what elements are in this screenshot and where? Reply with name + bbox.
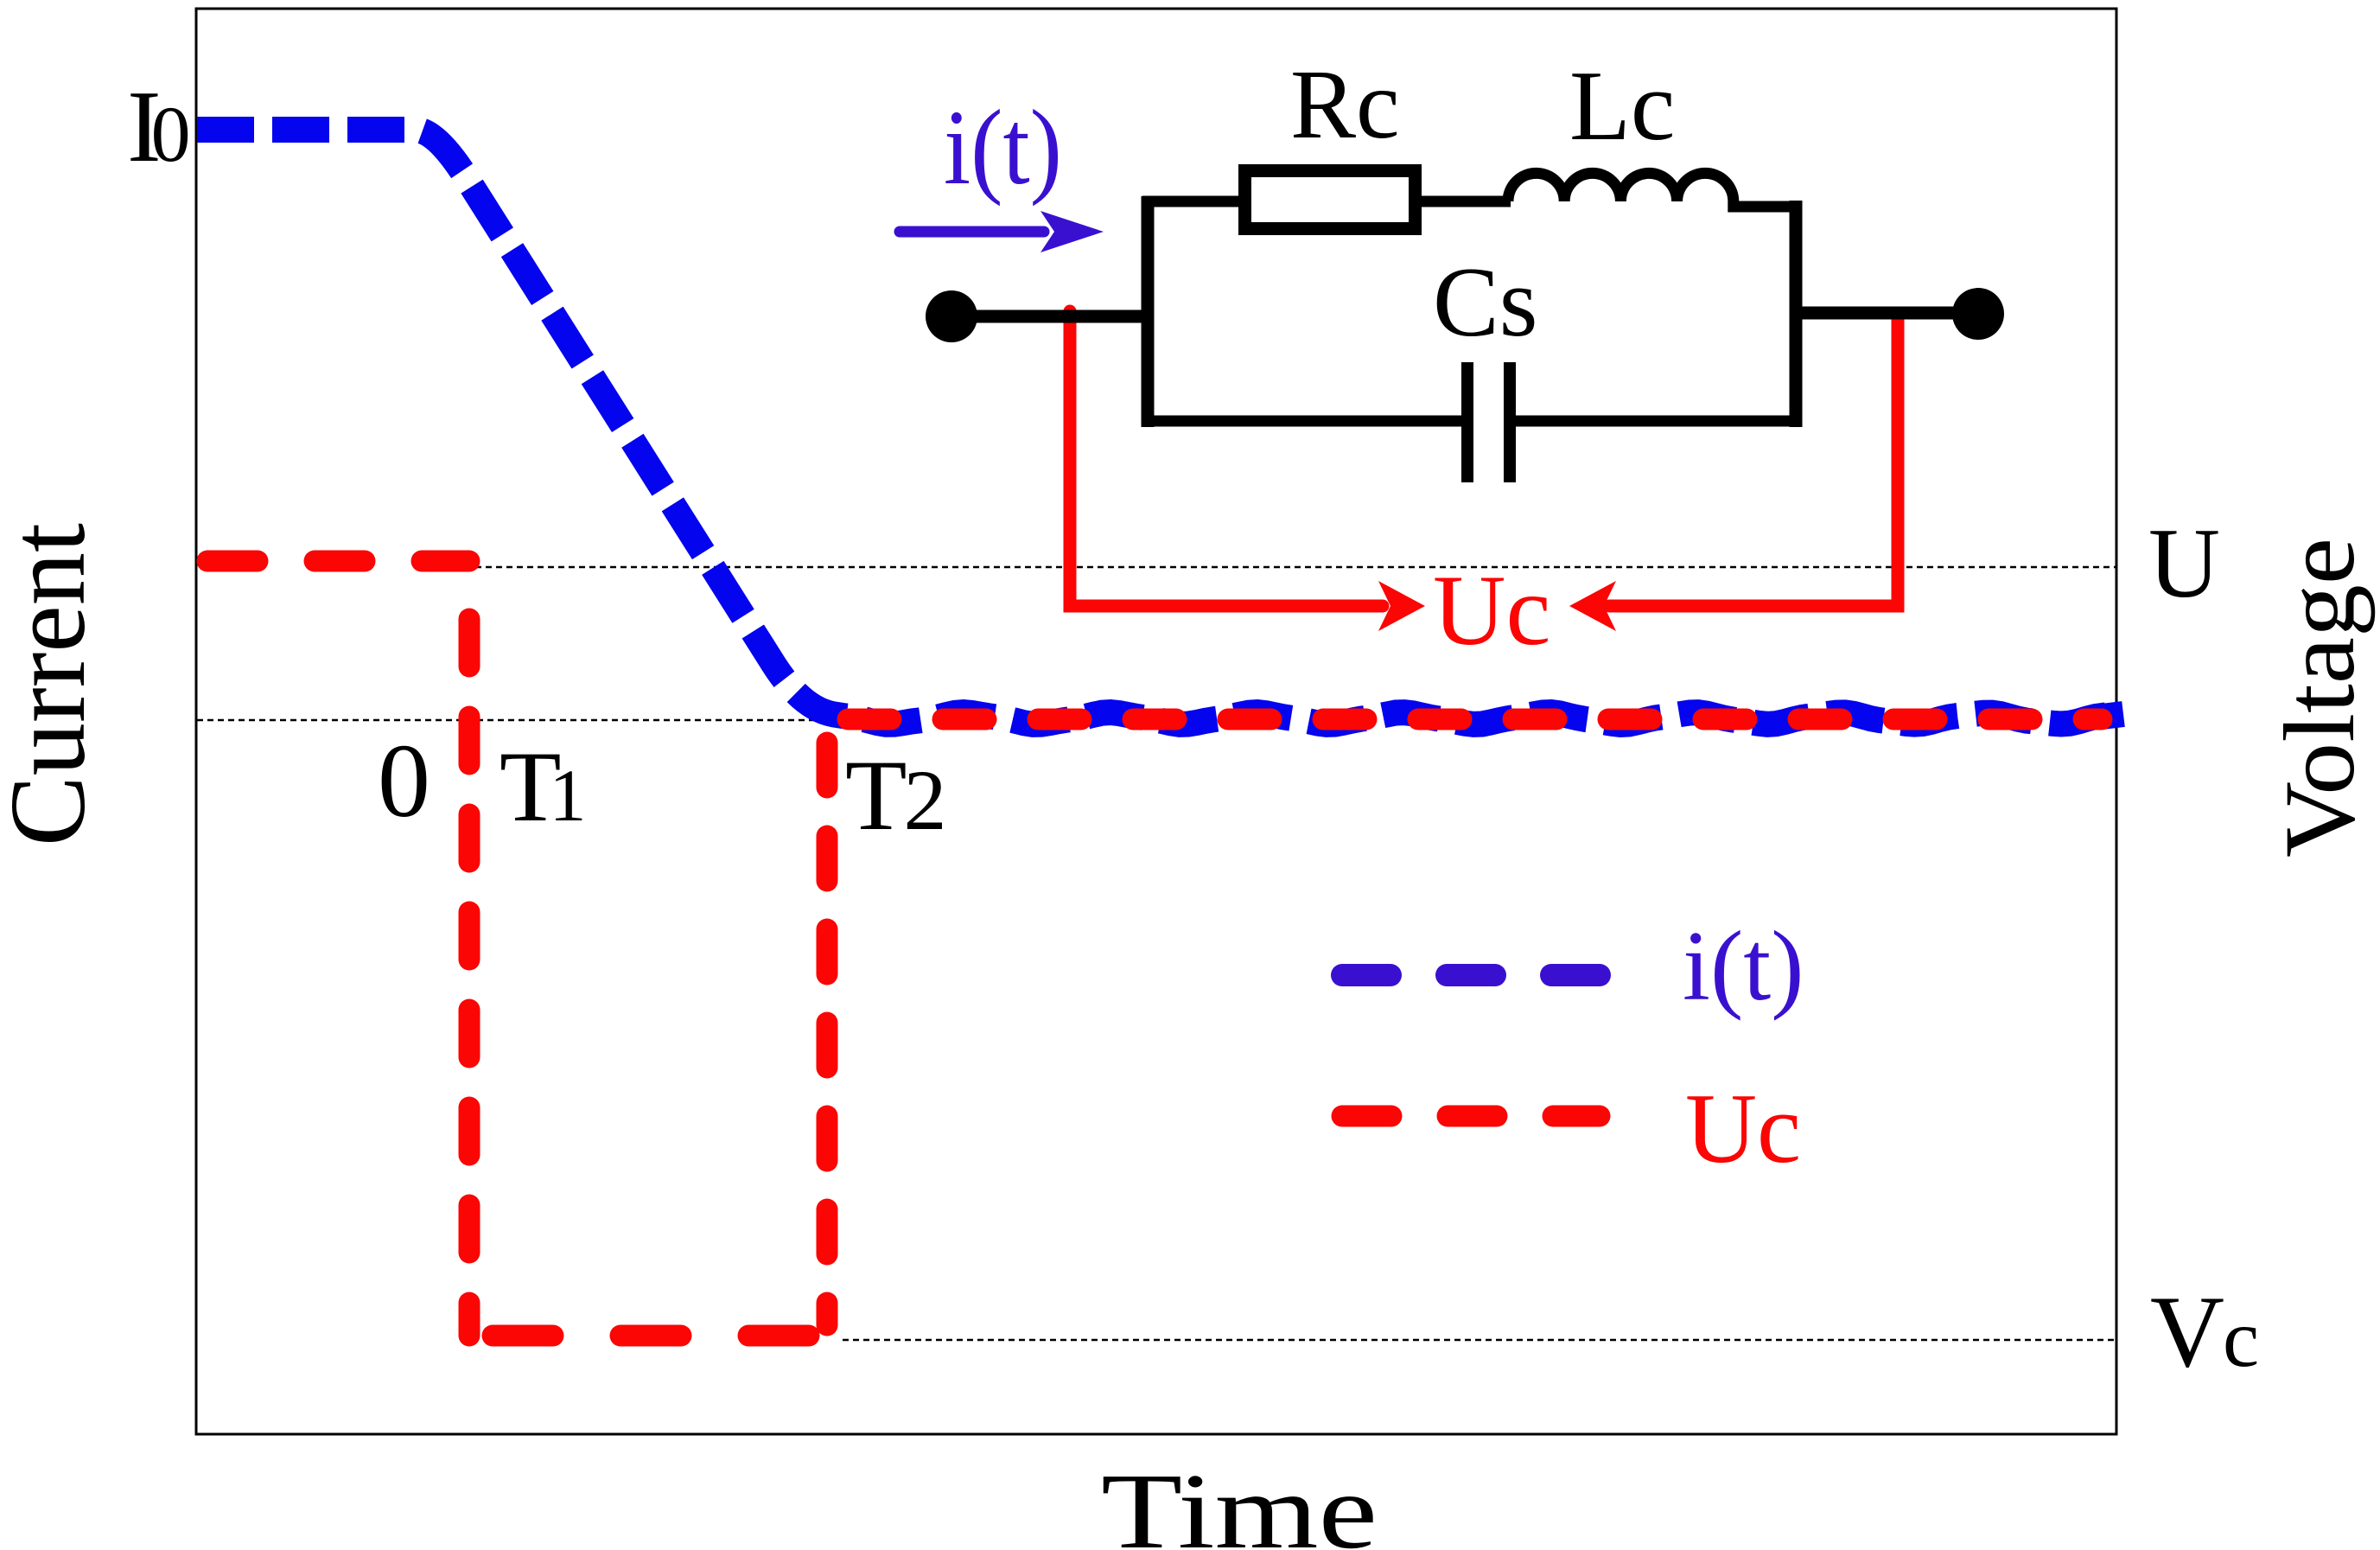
wire inductor to right bar	[1734, 201, 1796, 207]
curve Uc top segment	[207, 551, 469, 572]
arrowhead Uc left	[1378, 581, 1425, 631]
wire bottom right	[1515, 416, 1802, 427]
capacitor Cs plate left	[1461, 362, 1473, 482]
wire top left	[1142, 196, 1246, 207]
wire terminal right	[1796, 307, 1978, 320]
legend i(t) dash	[1342, 964, 1600, 986]
wire Uc measure left red	[1070, 311, 1383, 606]
arrow i(t) direction	[900, 226, 1044, 238]
svg-text:Current: Current	[0, 523, 108, 846]
capacitor Cs plate right	[1504, 362, 1516, 482]
gridline steady level	[197, 719, 819, 722]
resistor Rc	[1245, 171, 1416, 229]
curve i(t) end nub at right frame	[2102, 714, 2123, 717]
svg-text:Vc: Vc	[2150, 1274, 2259, 1388]
svg-text:I0: I0	[127, 69, 191, 183]
svg-text:Uc: Uc	[1685, 1074, 1801, 1183]
node right bar	[1790, 201, 1803, 427]
gridline U level	[475, 566, 2116, 569]
node left bar	[1142, 196, 1155, 427]
svg-text:Rc: Rc	[1290, 49, 1400, 159]
svg-text:Uc: Uc	[1433, 555, 1550, 667]
curve i(t) blue dashed	[197, 130, 2116, 724]
curve Uc drop at T1	[459, 619, 480, 1336]
terminal left	[926, 290, 977, 342]
curve Uc bottom segment	[493, 1325, 827, 1347]
curve Uc rise at T2	[817, 743, 838, 1325]
svg-text:Lc: Lc	[1569, 51, 1675, 162]
terminal right	[1952, 288, 2004, 340]
svg-text:i(t): i(t)	[1683, 911, 1804, 1021]
inductor Lc	[1508, 173, 1734, 201]
curve Uc steady segment	[848, 709, 2102, 730]
arrowhead Uc right	[1569, 581, 1616, 631]
wire terminal left	[951, 310, 1149, 323]
wire resistor to inductor	[1422, 196, 1511, 207]
svg-text:Cs: Cs	[1433, 247, 1537, 357]
svg-text:0: 0	[378, 723, 430, 839]
legend Uc dash	[1342, 1106, 1600, 1127]
svg-text:U: U	[2148, 508, 2220, 618]
svg-text:Voltage: Voltage	[2264, 538, 2376, 858]
svg-text:T1: T1	[500, 731, 586, 843]
gridline Vc level	[843, 1339, 2116, 1342]
svg-text:T2: T2	[845, 740, 946, 852]
wire Uc measure right red	[1609, 313, 1898, 606]
svg-text:Time: Time	[1101, 1452, 1378, 1550]
wire bottom left	[1142, 416, 1461, 427]
svg-text:i(t): i(t)	[944, 88, 1062, 207]
plot frame	[196, 9, 2116, 1434]
